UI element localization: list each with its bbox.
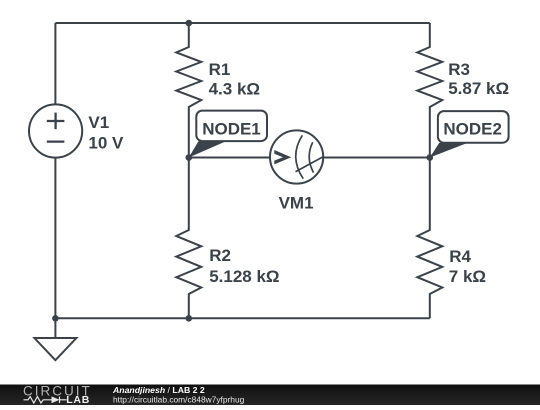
- svg-text:R1: R1: [209, 60, 231, 79]
- svg-text:10 V: 10 V: [88, 134, 124, 153]
- svg-text:NODE1: NODE1: [202, 120, 261, 139]
- svg-text:R3: R3: [448, 60, 470, 79]
- svg-text:VM1: VM1: [279, 193, 314, 212]
- svg-text:5.87 kΩ: 5.87 kΩ: [448, 79, 509, 98]
- svg-text:R4: R4: [449, 247, 471, 266]
- svg-text:NODE2: NODE2: [443, 119, 502, 138]
- svg-text:4.3 kΩ: 4.3 kΩ: [209, 79, 260, 98]
- svg-text:http://circuitlab.com/c848w7yf: http://circuitlab.com/c848w7yfprhug: [113, 394, 245, 404]
- svg-text:7 kΩ: 7 kΩ: [449, 267, 486, 286]
- svg-text:Anandjinesh / LAB 2 2: Anandjinesh / LAB 2 2: [112, 385, 205, 395]
- svg-text:V1: V1: [88, 113, 109, 132]
- svg-text:R2: R2: [209, 246, 231, 265]
- svg-text:5.128 kΩ: 5.128 kΩ: [209, 267, 279, 286]
- svg-text:LAB: LAB: [66, 394, 90, 405]
